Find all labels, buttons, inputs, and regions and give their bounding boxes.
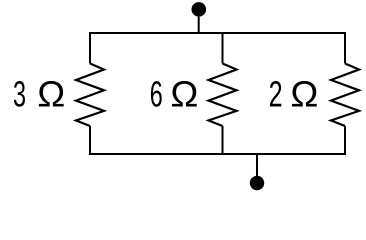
wire top terminal stem bbox=[198, 14, 200, 33]
svg-text:6: 6 bbox=[150, 74, 163, 115]
wire right branch top bbox=[344, 32, 346, 64]
wire bottom terminal stem bbox=[256, 154, 258, 178]
svg-text:Ω: Ω bbox=[37, 74, 65, 115]
resistor R2 6-ohm zigzag bbox=[209, 64, 237, 127]
wire top horizontal bbox=[90, 32, 345, 34]
svg-text:3: 3 bbox=[13, 74, 26, 115]
resistor R1 3-ohm zigzag bbox=[76, 64, 104, 127]
wire middle branch bottom bbox=[222, 126, 224, 154]
resistor R3 2-ohm zigzag bbox=[331, 64, 359, 127]
node bottom terminal bbox=[250, 176, 264, 190]
svg-text:Ω: Ω bbox=[290, 74, 318, 115]
wire right branch bottom bbox=[344, 126, 346, 155]
wire middle branch top bbox=[222, 33, 224, 64]
node top terminal bbox=[192, 2, 207, 17]
svg-text:Ω: Ω bbox=[170, 74, 198, 115]
wire left branch bottom bbox=[89, 126, 91, 155]
wire left branch top bbox=[89, 32, 91, 64]
svg-text:2: 2 bbox=[269, 74, 283, 115]
wire bottom horizontal bbox=[90, 153, 345, 155]
